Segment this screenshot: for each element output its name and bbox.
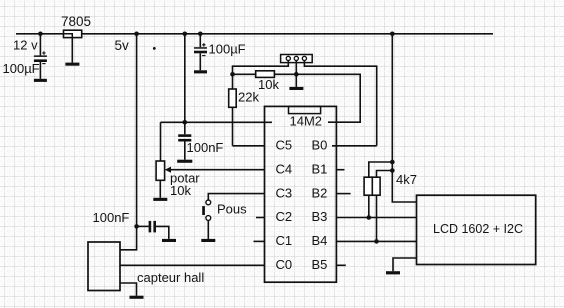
pin C2 stub (256, 217, 265, 219)
LCD module box (417, 195, 536, 264)
IC notch (289, 106, 321, 113)
potentiometer RV1 (156, 161, 264, 198)
node serin/100nF (183, 120, 188, 125)
ground LCD (386, 271, 400, 274)
ground hall (130, 296, 144, 299)
svg-text:7805: 7805 (61, 14, 91, 29)
capacitor C2 100uF polarized (194, 34, 207, 71)
node R4 top (390, 168, 395, 173)
resistor R4 4k7 (372, 171, 392, 242)
resistor R3 4k7 (364, 162, 392, 218)
node J1 pin2 (294, 72, 299, 77)
wire B4 to LCD (336, 240, 416, 242)
svg-text:10k: 10k (258, 77, 279, 92)
wire serin drop vertical (184, 34, 186, 123)
pin B1 stub (336, 169, 344, 171)
wire B0 to serial loop (332, 145, 377, 147)
wire serout inner loop to IC (296, 74, 360, 122)
svg-text:B2: B2 (312, 185, 328, 200)
wire J1 pin1 to 22k/10k node (233, 61, 289, 75)
wire 22k to C5 pin (233, 145, 265, 147)
svg-text:LCD 1602 + I2C: LCD 1602 + I2C (433, 222, 523, 236)
ground C3 (177, 160, 192, 163)
capacitor C1 100uF polarized (34, 34, 47, 79)
regulator U1 7805 (64, 30, 82, 62)
wire Pous to C3 pin (208, 194, 264, 200)
pushbutton S1 Pous (202, 200, 211, 220)
ground Pous (201, 239, 215, 242)
wire 5V rail (16, 33, 493, 35)
node R4 bottom (374, 239, 379, 244)
ground 7805 (65, 63, 79, 66)
wire Pous to ground (207, 220, 209, 239)
node lcd 5v drop (390, 32, 395, 37)
wire 5v vertical to hall sensor (120, 34, 137, 250)
svg-text:C1: C1 (276, 233, 293, 248)
svg-text:B5: B5 (312, 257, 328, 272)
node R3 top (390, 160, 395, 165)
svg-text:100µF: 100µF (209, 42, 246, 57)
svg-text:B4: B4 (312, 233, 328, 248)
wire B3 to LCD (336, 217, 416, 219)
node 5v/100nF hall (134, 224, 139, 229)
wire J1 pin2 to ground (295, 61, 297, 87)
svg-text:C2: C2 (276, 209, 293, 224)
pin B2 stub (336, 193, 350, 195)
svg-text:4k7: 4k7 (396, 172, 417, 187)
ground C2 (194, 70, 207, 73)
svg-text:C0: C0 (276, 257, 293, 272)
wire J1 pin3 to B0 (304, 61, 376, 146)
node at 12v cap (38, 32, 43, 37)
svg-text:C4: C4 (276, 161, 293, 176)
svg-text:C5: C5 (276, 138, 293, 153)
svg-text:5v: 5v (115, 38, 130, 53)
svg-text:100nF: 100nF (187, 140, 224, 155)
node 5v drop (134, 32, 139, 37)
node serin drop (183, 32, 188, 37)
pin C1 stub (254, 240, 265, 242)
capacitor C3 100nF (178, 122, 191, 159)
node R3 bottom (367, 215, 372, 220)
wire LCD ground (393, 258, 417, 271)
pin B5 stub (336, 264, 345, 266)
svg-text:100nF: 100nF (93, 210, 130, 225)
hall sensor U2 box (88, 242, 120, 291)
resistor R1 10k horizontal (233, 71, 297, 78)
svg-text:22k: 22k (238, 89, 259, 104)
connector J1 serial header (281, 55, 313, 63)
IC U1 14M2 box (265, 106, 337, 282)
ground C4 (162, 239, 176, 242)
ground J1 (289, 87, 303, 90)
wire serin net horizontal (161, 121, 273, 123)
wire 5v to LCD (392, 34, 416, 202)
ground C1 (34, 79, 47, 82)
wire hall pin2 to C0 (120, 264, 265, 266)
svg-text:B1: B1 (312, 161, 328, 176)
stray dot (153, 47, 156, 50)
resistor R2 22k vertical (229, 74, 237, 146)
wire hall pin3 to ground (120, 283, 137, 296)
svg-text:10k: 10k (170, 183, 191, 198)
svg-text:capteur hall: capteur hall (137, 270, 204, 285)
svg-text:C3: C3 (276, 185, 293, 200)
capacitor C4 100nF horizontal (137, 221, 169, 239)
svg-text:100µF: 100µF (3, 61, 40, 76)
svg-text:Pous: Pous (217, 202, 247, 217)
ground RV1 (153, 198, 167, 201)
node 22k/10k (230, 72, 235, 77)
wire serin to pot top (160, 122, 162, 161)
node 100uF cap2 (198, 32, 203, 37)
svg-text:B3: B3 (312, 209, 328, 224)
svg-text:14M2: 14M2 (290, 114, 323, 129)
svg-text:B0: B0 (312, 138, 328, 153)
svg-text:12 v: 12 v (13, 38, 38, 53)
